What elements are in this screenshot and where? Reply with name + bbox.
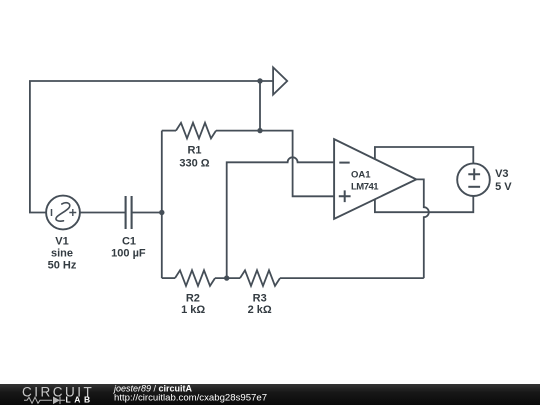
wire op-amp top power pin bbox=[375, 147, 473, 163]
svg-text:330 Ω: 330 Ω bbox=[179, 157, 209, 169]
logo schematic glyph (resistor + diode) bbox=[24, 397, 65, 405]
svg-text:50 Hz: 50 Hz bbox=[48, 259, 77, 271]
wire vertical from top node down to R1 output node bbox=[259, 81, 261, 131]
svg-text:LAB: LAB bbox=[66, 394, 94, 404]
wire C1 right plate to node A bbox=[132, 212, 162, 214]
wire R3 right lead to output vertical bbox=[280, 277, 424, 279]
svg-text:LM741: LM741 bbox=[351, 182, 379, 193]
svg-text:1 kΩ: 1 kΩ bbox=[181, 304, 205, 316]
voltage source V3 circle bbox=[457, 163, 490, 196]
wire R2 left lead bbox=[162, 277, 175, 279]
svg-text:R2: R2 bbox=[186, 292, 200, 304]
capacitor C1 left plate bbox=[125, 196, 127, 229]
svg-text:V1: V1 bbox=[55, 235, 68, 247]
junction dot R1 output node bbox=[257, 128, 262, 133]
svg-text:100 µF: 100 µF bbox=[111, 247, 146, 259]
wire R1 right lead to corner bbox=[216, 131, 334, 197]
resistor R3 bbox=[240, 270, 280, 286]
resistor R2 bbox=[175, 270, 215, 286]
wire R1 left lead bbox=[162, 130, 176, 132]
op-amp U1 triangle bbox=[334, 139, 416, 219]
capacitor C1 right plate bbox=[131, 196, 133, 229]
V1 sine squiggle bbox=[56, 203, 70, 221]
op-amp minus symbol bbox=[339, 162, 349, 164]
node flag (output marker) bbox=[273, 67, 287, 94]
V1 plus terminal mark bbox=[69, 209, 76, 216]
op-amp plus symbol bbox=[339, 190, 351, 202]
svg-text:OA1: OA1 bbox=[351, 170, 371, 181]
svg-text:5 V: 5 V bbox=[495, 181, 512, 193]
svg-text:R1: R1 bbox=[187, 145, 201, 157]
svg-text:2 kΩ: 2 kΩ bbox=[248, 304, 272, 316]
junction dot at top node bbox=[257, 78, 262, 83]
V3 plus symbol bbox=[468, 169, 480, 181]
wire inverting input from R2/R3 node with hop bbox=[227, 157, 334, 278]
wire op-amp bottom power pin rail bbox=[375, 196, 473, 212]
V1 minus terminal mark bbox=[51, 209, 53, 216]
resistor R1 bbox=[176, 123, 216, 139]
junction dot R2/R3 node bbox=[224, 275, 229, 280]
voltage source V1 circle bbox=[46, 196, 80, 230]
V3 minus symbol bbox=[468, 186, 480, 188]
wire R2 to R3 bbox=[215, 277, 240, 279]
svg-text:R3: R3 bbox=[253, 292, 267, 304]
junction dot node A bbox=[159, 210, 164, 215]
svg-text:sine: sine bbox=[51, 247, 73, 259]
svg-text:C1: C1 bbox=[122, 235, 136, 247]
svg-text:V3: V3 bbox=[495, 168, 508, 180]
wire V1 right to C1 left plate bbox=[80, 212, 125, 214]
svg-text:http://circuitlab.com/cxabg28s: http://circuitlab.com/cxabg28s957e7 bbox=[114, 392, 267, 403]
wire left loop (V1 left to top rail) bbox=[30, 81, 273, 213]
wire vertical node A (R1 left to R2 left) bbox=[161, 131, 163, 279]
wire op-amp output down with hop over bottom rail bbox=[416, 179, 429, 278]
